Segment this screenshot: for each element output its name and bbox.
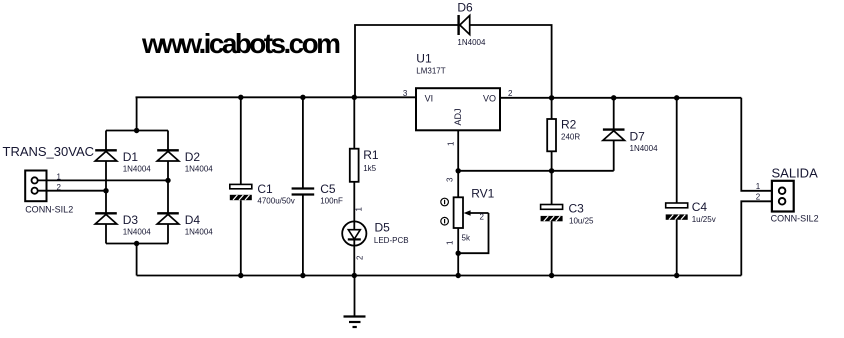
connector J2 SALIDA <box>772 181 794 212</box>
junction C4 output rail <box>674 95 679 100</box>
diode D7 <box>603 130 625 141</box>
op-amp U1 LM317T body <box>416 88 500 130</box>
svg-text:3: 3 <box>446 177 455 182</box>
wire output rail <box>500 97 741 99</box>
wire main input bus <box>136 96 417 98</box>
capacitor C4 <box>666 203 688 220</box>
resistor R1 <box>350 149 359 182</box>
indicator down of RV1 <box>441 217 449 225</box>
capacitor C5 <box>292 189 315 195</box>
svg-text:CONN-SIL2: CONN-SIL2 <box>771 213 819 223</box>
junction R1 top bus <box>352 95 357 100</box>
junction R2 ADJ rail <box>549 168 554 173</box>
wire top rail from node above R1 to D6 cathode <box>355 25 458 97</box>
svg-text:1N4004: 1N4004 <box>123 228 152 237</box>
junction ADJ node <box>456 168 461 173</box>
wire SALIDA pin2 to bottom bus <box>741 201 779 275</box>
svg-text:ADJ: ADJ <box>453 108 463 125</box>
svg-text:C4: C4 <box>692 200 708 214</box>
wire U1 ADJ stem <box>457 130 459 171</box>
svg-text:1: 1 <box>756 182 761 191</box>
junction RV1 bottom bus <box>456 273 461 278</box>
junction bridge top <box>134 128 139 133</box>
wire C3 top stem <box>551 171 553 205</box>
svg-text:1u/25v: 1u/25v <box>692 215 716 224</box>
wire output drop to SALIDA pin1 <box>741 98 779 191</box>
junction D2-D4 node <box>165 178 170 183</box>
svg-text:2: 2 <box>508 89 513 98</box>
junction D7 output rail <box>611 95 616 100</box>
svg-text:1: 1 <box>355 207 364 212</box>
svg-text:1k5: 1k5 <box>363 164 376 173</box>
wire from D6 anode to right drop <box>470 25 552 98</box>
junction C4 bottom bus <box>674 273 679 278</box>
junction D1-D3 node <box>103 188 108 193</box>
wire R1 to LED <box>353 182 355 230</box>
svg-text:1N4004: 1N4004 <box>457 38 486 47</box>
junction C5 top bus <box>300 95 305 100</box>
svg-text:D3: D3 <box>123 213 139 227</box>
svg-text:D2: D2 <box>185 150 201 164</box>
connector J1 TRANS_30VAC <box>25 171 46 202</box>
junction bridge bottom <box>134 241 139 246</box>
wire ADJ rail <box>458 170 614 172</box>
wire RV1 bottom stem <box>457 228 459 276</box>
svg-text:3: 3 <box>403 89 408 98</box>
svg-text:RV1: RV1 <box>471 187 494 201</box>
wire bridge feed drop <box>136 97 138 130</box>
junction RV1 wiper to pin1 <box>456 251 461 256</box>
wire R1 branch upper <box>353 97 355 148</box>
svg-text:D4: D4 <box>185 213 201 227</box>
svg-text:D5: D5 <box>375 221 391 235</box>
svg-text:TRANS_30VAC: TRANS_30VAC <box>3 144 95 159</box>
svg-text:D6: D6 <box>457 1 473 15</box>
wire C1 branch lower <box>240 200 242 275</box>
resistor R2 <box>547 119 556 151</box>
wire bottom bus <box>137 275 742 277</box>
svg-text:SALIDA: SALIDA <box>772 165 819 180</box>
wire bridge left column <box>105 131 107 244</box>
wire pin1 to D2-D4 node <box>38 179 168 181</box>
wire LED to bottom bus <box>353 239 355 275</box>
wire bridge bottom rail <box>106 243 168 245</box>
svg-text:www.icabots.com: www.icabots.com <box>141 28 340 59</box>
wire C3 bottom stem <box>551 221 553 275</box>
svg-text:2: 2 <box>480 213 485 222</box>
wire R2 top stem <box>551 98 553 119</box>
wire bridge to bottom bus <box>136 244 138 276</box>
wire C5 branch lower <box>302 195 304 276</box>
capacitor C3 <box>541 205 563 222</box>
wire D7 bottom stem <box>613 140 615 170</box>
svg-text:5k: 5k <box>462 233 471 242</box>
svg-text:D1: D1 <box>123 150 139 164</box>
indicator up of RV1 <box>441 198 449 206</box>
wire D7 top stem <box>613 98 615 130</box>
wire C5 branch upper <box>302 97 304 188</box>
svg-text:VI: VI <box>425 94 434 104</box>
diode D2 <box>157 150 179 161</box>
svg-text:1N4004: 1N4004 <box>630 144 659 153</box>
wire RV1 wiper return <box>458 213 488 253</box>
svg-text:C1: C1 <box>257 182 273 196</box>
potentiometer RV1 <box>454 197 489 228</box>
svg-text:240R: 240R <box>561 133 580 142</box>
svg-text:2: 2 <box>356 255 365 260</box>
svg-text:1: 1 <box>446 141 455 146</box>
junction D6 drop on output rail <box>549 95 554 100</box>
wire R2 bottom stem <box>551 151 553 171</box>
svg-text:C3: C3 <box>569 201 585 215</box>
junction C1 top bus <box>238 95 243 100</box>
wire C4 top stem <box>676 98 678 203</box>
wire bridge right column <box>167 131 169 244</box>
wire pin2 to D1-D3 node <box>38 190 106 192</box>
svg-text:VO: VO <box>483 94 496 104</box>
svg-text:D7: D7 <box>630 129 646 143</box>
junction ground node <box>352 273 357 278</box>
svg-text:U1: U1 <box>416 52 432 66</box>
ground <box>344 276 366 328</box>
svg-text:1N4004: 1N4004 <box>123 165 152 174</box>
diode D4 <box>157 213 179 224</box>
junction C1 bottom bus <box>238 273 243 278</box>
svg-text:10u/25: 10u/25 <box>569 217 594 226</box>
svg-text:C5: C5 <box>320 182 336 196</box>
wire C1 branch upper <box>240 97 242 184</box>
svg-text:4700u/50v: 4700u/50v <box>257 197 294 206</box>
diode D3 <box>95 213 117 224</box>
svg-text:100nF: 100nF <box>320 197 343 206</box>
svg-text:1N4004: 1N4004 <box>185 165 214 174</box>
svg-text:1N4004: 1N4004 <box>185 228 214 237</box>
wire C4 bottom stem <box>676 220 678 276</box>
wire RV1 top stem <box>457 171 459 198</box>
svg-text:R2: R2 <box>561 118 577 132</box>
svg-text:2: 2 <box>756 192 761 201</box>
svg-text:1: 1 <box>446 240 455 245</box>
diode D6 symbol (pointing left) <box>459 15 470 35</box>
svg-text:R1: R1 <box>363 148 379 162</box>
junction C5 bottom bus <box>300 273 305 278</box>
svg-text:LM317T: LM317T <box>416 67 445 76</box>
capacitor C1 <box>230 184 252 200</box>
svg-text:LED-PCB: LED-PCB <box>374 236 409 245</box>
LED D5 <box>342 221 366 245</box>
wire bridge top rail <box>106 130 168 132</box>
junction C3 bottom bus <box>549 273 554 278</box>
svg-text:CONN-SIL2: CONN-SIL2 <box>25 204 73 214</box>
diode D1 <box>95 150 117 161</box>
